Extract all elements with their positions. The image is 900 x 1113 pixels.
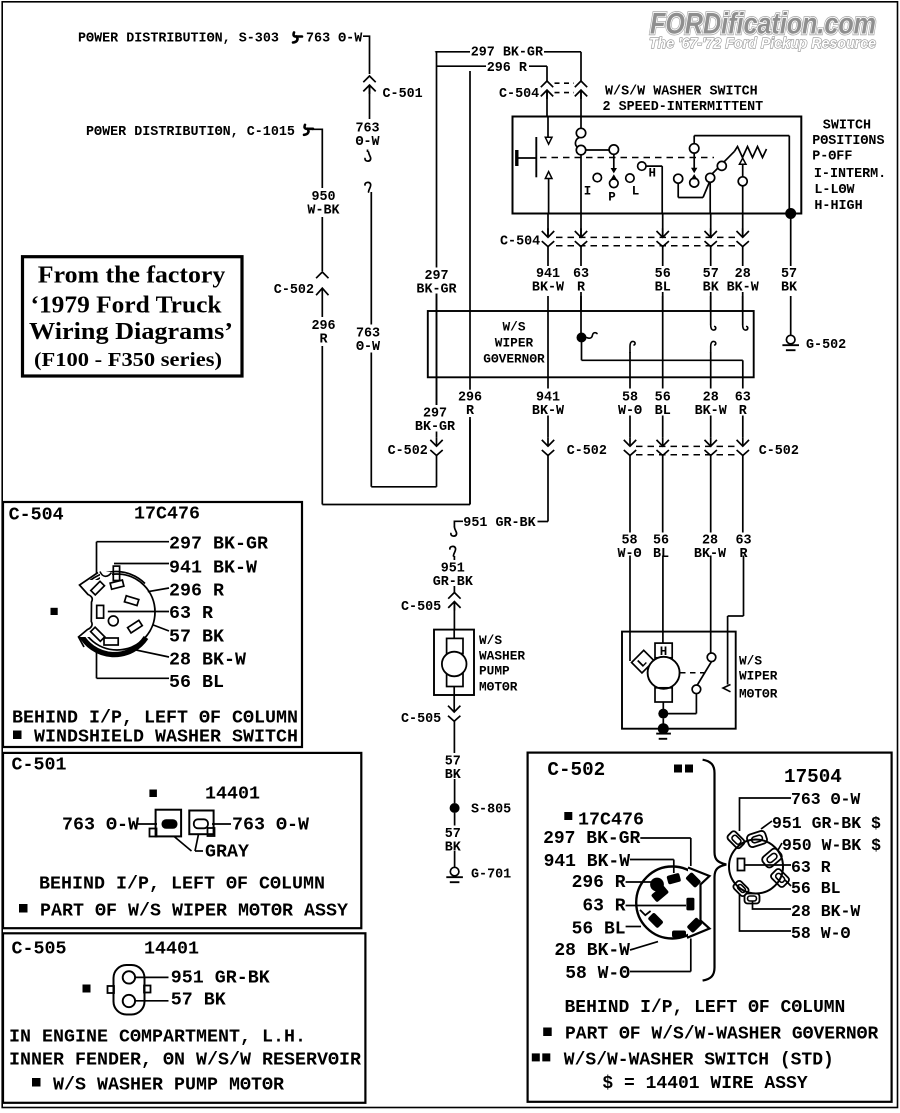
svg-text:I-INTERM.: I-INTERM. (814, 167, 886, 182)
svg-text:I: I (584, 185, 592, 199)
svg-text:951 GR-BK $: 951 GR-BK $ (772, 814, 881, 833)
svg-text:MΘTΘR: MΘTΘR (479, 680, 518, 695)
svg-text:28 BK-W: 28 BK-W (554, 941, 630, 961)
svg-text:C-502: C-502 (547, 759, 605, 781)
svg-text:MΘTΘR: MΘTΘR (739, 687, 778, 702)
svg-text:W/S/W WASHER SWITCH: W/S/W WASHER SWITCH (605, 85, 758, 100)
svg-text:PΘWER DISTRIBUTIΘN, C-1015: PΘWER DISTRIBUTIΘN, C-1015 (86, 125, 295, 140)
svg-text:BK: BK (445, 840, 462, 855)
svg-text:PART ΘF W/S/W-WASHER GΘVERNΘR: PART ΘF W/S/W-WASHER GΘVERNΘR (565, 1025, 878, 1045)
svg-text:296 R: 296 R (487, 61, 528, 76)
svg-text:C-505: C-505 (401, 712, 441, 727)
svg-text:C-502: C-502 (759, 444, 799, 459)
svg-text:28 BK-W: 28 BK-W (791, 902, 860, 921)
svg-text:‘1979 Ford Truck: ‘1979 Ford Truck (31, 293, 223, 319)
svg-text:G-701: G-701 (471, 867, 511, 882)
svg-text:14401: 14401 (144, 938, 199, 959)
svg-text:2 SPEED-INTERMITTENT: 2 SPEED-INTERMITTENT (603, 100, 764, 115)
svg-text:941 BK-W: 941 BK-W (544, 852, 631, 872)
svg-text:951 GR-BK: 951 GR-BK (171, 967, 270, 988)
svg-text:C-501: C-501 (383, 87, 423, 102)
svg-text:WIPER: WIPER (495, 336, 534, 351)
svg-text:L-LΘW: L-LΘW (814, 183, 855, 198)
svg-text:$ = 14401 WIRE ASSY: $ = 14401 WIRE ASSY (602, 1074, 807, 1094)
svg-text:BEHIND I/P, LEFT ΘF CΘLUMN: BEHIND I/P, LEFT ΘF CΘLUMN (39, 873, 325, 894)
svg-text:PΘSITIΘNS: PΘSITIΘNS (812, 134, 884, 149)
svg-text:S-805: S-805 (471, 802, 511, 817)
svg-text:BK-GR: BK-GR (415, 420, 456, 435)
svg-text:P-ΘFF: P-ΘFF (812, 149, 852, 164)
svg-text:296 R: 296 R (572, 873, 626, 893)
svg-text:IN ENGINE CΘMPARTMENT, L.H.: IN ENGINE CΘMPARTMENT, L.H. (9, 1026, 306, 1047)
svg-text:W/S: W/S (739, 654, 762, 669)
svg-text:296 R: 296 R (169, 580, 224, 601)
svg-text:BEHIND I/P, LEFT ΘF CΘLUMN: BEHIND I/P, LEFT ΘF CΘLUMN (12, 707, 298, 728)
svg-text:950 W-BK $: 950 W-BK $ (782, 836, 881, 855)
svg-text:57 BK: 57 BK (171, 989, 226, 1010)
svg-text:Θ-W: Θ-W (355, 135, 380, 150)
svg-text:WINDSHIELD WASHER SWITCH: WINDSHIELD WASHER SWITCH (34, 726, 298, 747)
svg-text:56 BL: 56 BL (791, 879, 841, 898)
svg-text:56 BL: 56 BL (169, 672, 224, 693)
svg-text:W/S: W/S (479, 633, 502, 648)
svg-text:W-BK: W-BK (307, 203, 340, 218)
svg-text:W/S/W-WASHER SWITCH (STD): W/S/W-WASHER SWITCH (STD) (564, 1051, 834, 1071)
svg-text:Θ-W: Θ-W (356, 340, 381, 355)
svg-text:(F100 - F350 series): (F100 - F350 series) (34, 349, 222, 371)
svg-text:The '67-'72 Ford Pickup Resour: The '67-'72 Ford Pickup Resource (649, 36, 876, 52)
svg-text:G-502: G-502 (806, 338, 846, 353)
svg-text:BK: BK (445, 768, 462, 783)
svg-text:C-504: C-504 (499, 87, 539, 102)
svg-text:BL: BL (653, 547, 669, 562)
svg-text:C-502: C-502 (274, 283, 314, 298)
svg-text:C-505: C-505 (12, 938, 67, 959)
svg-text:941 BK-W: 941 BK-W (169, 557, 257, 578)
svg-text:C-502: C-502 (388, 444, 428, 459)
svg-text:P: P (608, 191, 616, 205)
svg-text:W/S: W/S (502, 320, 525, 335)
svg-text:BK-W: BK-W (532, 280, 565, 295)
svg-text:763 Θ-W: 763 Θ-W (306, 32, 363, 47)
svg-text:GRAY: GRAY (205, 841, 249, 862)
svg-text:R: R (466, 404, 475, 419)
svg-text:GΘVERNΘR: GΘVERNΘR (483, 352, 545, 367)
svg-text:17504: 17504 (784, 766, 842, 788)
svg-text:17C476: 17C476 (134, 503, 200, 524)
svg-text:297 BK-GR: 297 BK-GR (471, 45, 544, 60)
svg-text:C-501: C-501 (12, 754, 67, 775)
svg-text:63 R: 63 R (169, 603, 213, 624)
svg-text:57 BK: 57 BK (169, 626, 224, 647)
svg-text:951 GR-BK: 951 GR-BK (463, 516, 536, 531)
svg-text:C-504: C-504 (500, 235, 540, 250)
svg-text:763 Θ-W: 763 Θ-W (791, 790, 860, 809)
svg-text:56 BL: 56 BL (572, 919, 626, 939)
svg-text:C-504: C-504 (9, 504, 64, 525)
svg-text:PUMP: PUMP (479, 663, 510, 678)
svg-text:14401: 14401 (205, 783, 260, 804)
svg-text:WIPER: WIPER (739, 669, 778, 684)
svg-text:GR-BK: GR-BK (433, 575, 474, 590)
svg-text:297 BK-GR: 297 BK-GR (169, 533, 268, 554)
svg-text:58 W-Θ: 58 W-Θ (565, 964, 630, 984)
svg-text:H: H (648, 167, 656, 181)
svg-text:From the factory: From the factory (38, 263, 226, 289)
svg-text:63 R: 63 R (791, 858, 831, 877)
svg-text:INNER FENDER, ΘN W/S/W RESERVΘ: INNER FENDER, ΘN W/S/W RESERVΘIR (9, 1049, 361, 1070)
svg-text:C-502: C-502 (567, 444, 607, 459)
svg-text:Wiring Diagrams’: Wiring Diagrams’ (29, 319, 233, 345)
svg-text:SWITCH: SWITCH (823, 118, 871, 133)
svg-text:R: R (319, 332, 328, 347)
svg-text:BEHIND I/P, LEFT ΘF CΘLUMN: BEHIND I/P, LEFT ΘF CΘLUMN (565, 998, 846, 1018)
svg-text:763 Θ-W: 763 Θ-W (62, 814, 139, 835)
svg-text:W/S WASHER PUMP MΘTΘR: W/S WASHER PUMP MΘTΘR (53, 1074, 284, 1095)
svg-text:763 Θ-W: 763 Θ-W (232, 814, 309, 835)
svg-text:C-505: C-505 (401, 600, 441, 615)
svg-text:PART ΘF W/S WIPER MΘTΘR ASSY: PART ΘF W/S WIPER MΘTΘR ASSY (40, 900, 348, 921)
svg-text:H-HIGH: H-HIGH (814, 199, 862, 214)
svg-text:58 W-Θ: 58 W-Θ (791, 924, 851, 943)
svg-text:28 BK-W: 28 BK-W (169, 649, 246, 670)
svg-text:63 R: 63 R (582, 896, 625, 916)
svg-text:BK: BK (781, 280, 798, 295)
svg-text:17C476: 17C476 (578, 809, 644, 830)
svg-text:297 BK-GR: 297 BK-GR (543, 829, 640, 849)
svg-text:L: L (632, 185, 640, 199)
svg-text:PΘWER DISTRIBUTIΘN, S-303: PΘWER DISTRIBUTIΘN, S-303 (78, 32, 279, 47)
svg-text:WASHER: WASHER (479, 648, 525, 663)
